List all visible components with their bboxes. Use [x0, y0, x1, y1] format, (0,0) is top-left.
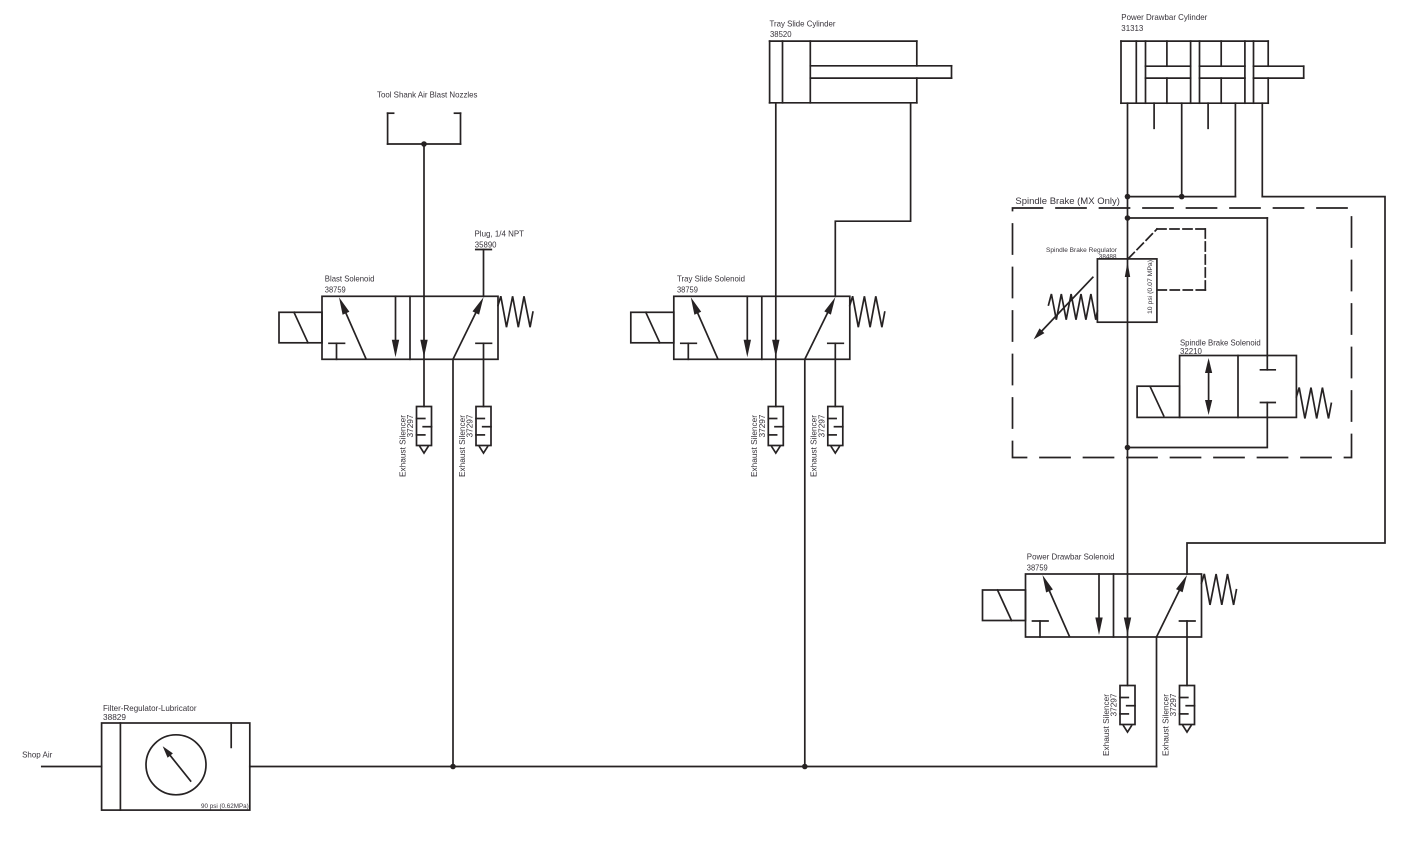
- exhaust silencer 37297 (blast valve right): [476, 407, 491, 454]
- junction dot: supply at tray riser: [802, 764, 808, 770]
- valve: Blast Solenoid 38759 (5/2 solenoid valve): [279, 296, 533, 359]
- svg-text:37297: 37297: [817, 414, 826, 438]
- svg-text:38520: 38520: [770, 29, 792, 39]
- svg-text:38759: 38759: [677, 284, 698, 294]
- wire: supply riser to blast valve port 1: [452, 359, 454, 766]
- svg-text:Tray Slide Cylinder: Tray Slide Cylinder: [770, 19, 836, 29]
- wire: tray valve port 5 to exhaust silencer: [834, 359, 836, 406]
- svg-text:37297: 37297: [466, 414, 475, 438]
- wire: pdb cylinder port 3 down: [1234, 103, 1236, 196]
- svg-text:Power Drawbar Solenoid: Power Drawbar Solenoid: [1027, 552, 1115, 562]
- regulator adjustment arrow: [1038, 277, 1093, 335]
- node: Tool Shank Air Blast Nozzles bracket: [388, 113, 461, 144]
- wire: main supply line: [250, 766, 1157, 768]
- plug 1/4 NPT 35890 crossbar: [476, 249, 492, 251]
- svg-text:38829: 38829: [103, 712, 126, 722]
- wire: pdb cylinder vent stub 1: [1153, 103, 1155, 128]
- svg-text:37297: 37297: [1110, 693, 1119, 717]
- wire: nozzles to blast valve port 4: [423, 144, 425, 296]
- svg-text:Tool Shank Air Blast Nozzles: Tool Shank Air Blast Nozzles: [377, 90, 478, 100]
- svg-text:38759: 38759: [1027, 562, 1048, 572]
- wire: pdb cylinder vent stub 2: [1207, 103, 1209, 128]
- svg-text:Power Drawbar Cylinder: Power Drawbar Cylinder: [1121, 12, 1207, 22]
- wire: spindle brake line down to pdb valve port 4: [1127, 448, 1129, 575]
- wire: pdb cylinder port 1 down (main brake feed): [1127, 103, 1129, 259]
- cylinder: Power Drawbar Cylinder 31313 (3-stage): [1121, 41, 1304, 103]
- svg-text:37297: 37297: [406, 414, 415, 438]
- regulator pilot dashed box: [1128, 229, 1205, 290]
- wire: supply riser to pdb valve port 1: [1156, 637, 1158, 767]
- wire: drop to spindle brake solenoid port (top): [1266, 218, 1268, 356]
- valve: Power Drawbar Solenoid 38759 (5/2 solenoid valve): [983, 574, 1237, 637]
- wire: clamp line from port 4 to right side drop: [1187, 197, 1385, 574]
- wire: tray valve port 3 to exhaust silencer: [775, 359, 777, 406]
- svg-text:Blast Solenoid: Blast Solenoid: [325, 274, 375, 284]
- svg-text:37297: 37297: [758, 414, 767, 438]
- svg-text:37297: 37297: [1169, 693, 1178, 717]
- wire: blast valve port 5 to exhaust silencer: [483, 359, 485, 406]
- svg-text:Plug, 1/4 NPT: Plug, 1/4 NPT: [475, 229, 525, 239]
- wire: pdb cylinder port 4 down: [1261, 103, 1263, 196]
- wire: shop air inlet: [42, 766, 102, 768]
- exhaust silencer 37297 (pdb valve right): [1180, 686, 1195, 733]
- wire: pdb cylinder port 2 down: [1181, 103, 1183, 196]
- svg-text:31313: 31313: [1121, 23, 1143, 33]
- exhaust silencer 37297 (tray valve right): [828, 407, 843, 454]
- svg-text:Spindle Brake (MX Only): Spindle Brake (MX Only): [1015, 195, 1120, 206]
- junction dot: unclamp header at port 1: [1125, 194, 1131, 200]
- wire: tray cylinder cap port down to tray valve port 4: [775, 103, 777, 296]
- svg-text:Shop Air: Shop Air: [22, 749, 52, 759]
- valve: Spindle Brake Solenoid 32210 (2-position): [1137, 356, 1331, 419]
- svg-text:Tray Slide Solenoid: Tray Slide Solenoid: [677, 274, 745, 284]
- svg-text:35890: 35890: [475, 240, 497, 250]
- valve: Tray Slide Solenoid 38759 (5/2 solenoid valve): [631, 296, 885, 359]
- wire: supply riser to tray valve port 1: [804, 359, 806, 766]
- FRL: Filter-Regulator-Lubricator 38829: [102, 723, 250, 810]
- exhaust silencer 37297 (blast valve left): [417, 407, 432, 454]
- svg-text:90 psi (0.62MPa): 90 psi (0.62MPa): [201, 803, 249, 810]
- svg-text:32210: 32210: [1180, 346, 1202, 356]
- wire: blast valve port 3 to exhaust silencer: [423, 359, 425, 406]
- junction dot at nozzle bracket: [421, 141, 427, 147]
- wire: regulator feed tap header: [1128, 217, 1268, 219]
- wire: pdb valve port 3 to exhaust silencer: [1127, 637, 1129, 686]
- wire: pdb valve port 5 to exhaust silencer: [1186, 637, 1188, 686]
- junction dot: brake return at supply line: [1125, 445, 1131, 451]
- exhaust silencer 37297 (tray valve left): [768, 407, 783, 454]
- wire: tray cylinder rod port to tray valve port 2 (jog): [835, 103, 910, 296]
- wire: supply line through regulator: [1127, 259, 1129, 448]
- wire: plug to blast valve port 2: [483, 250, 485, 297]
- junction dot: regulator tap: [1125, 215, 1131, 221]
- cylinder: Tray Slide Cylinder 38520: [770, 41, 952, 103]
- junction dot: supply at blast riser: [450, 764, 456, 770]
- exhaust silencer 37297 (pdb valve left): [1120, 686, 1135, 733]
- regulator adjustment spring: [1049, 294, 1098, 320]
- wire: unclamp header joining ports 1-3: [1128, 196, 1236, 198]
- svg-text:10 psi (0.07 MPa): 10 psi (0.07 MPa): [1147, 260, 1154, 314]
- spindle brake dashed enclosure: [1013, 208, 1352, 458]
- junction dot: unclamp header at port 2: [1179, 194, 1185, 200]
- wire: spindle valve bottom port to brake return: [1128, 417, 1268, 447]
- regulator: Spindle Brake Regulator 38488: [1097, 259, 1157, 322]
- svg-text:38759: 38759: [325, 284, 346, 294]
